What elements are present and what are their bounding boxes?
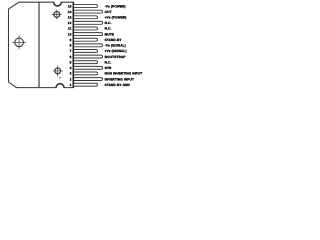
pin 4 lead, number and label "SVR"	[70, 66, 112, 70]
pin 6 lead, number and label "BOOTSTRAP"	[70, 55, 127, 59]
pin 13 lead, number and label "+Vs (POWER)"	[68, 15, 127, 19]
svg-text:14: 14	[68, 10, 72, 14]
notch center mark	[59, 77, 60, 78]
pin 2 lead, number and label "INVERTING INPUT"	[70, 77, 134, 81]
pin 11 lead, number and label "N.C."	[68, 27, 111, 31]
pin 14 lead, number and label "OUT"	[68, 10, 112, 14]
svg-text:7: 7	[70, 49, 72, 53]
right edge thick bar	[72, 2, 74, 88]
pin 5 lead, number and label "N.C."	[70, 60, 112, 64]
svg-text:6: 6	[70, 55, 72, 59]
svg-text:INVERTING INPUT: INVERTING INPUT	[105, 77, 134, 81]
pin 15 lead, number and label "-Vs (POWER)"	[68, 4, 126, 8]
svg-text:8: 8	[70, 44, 72, 48]
svg-text:+Vs (SIGNAL): +Vs (SIGNAL)	[105, 49, 127, 53]
svg-text:10: 10	[68, 32, 72, 36]
pin 1 lead, number and label "STAND-BY GND"	[70, 83, 131, 87]
pin 12 lead, number and label "N.C."	[68, 21, 112, 25]
top notch (thick arc)	[54, 2, 62, 6]
svg-text:3: 3	[70, 72, 72, 76]
svg-text:13: 13	[68, 15, 72, 19]
svg-text:STAND-BY: STAND-BY	[105, 38, 123, 42]
svg-text:15: 15	[68, 4, 72, 8]
pin 8 lead, number and label "-Vs (SIGNAL)"	[70, 44, 126, 48]
mounting hole (small, bottom)	[53, 65, 63, 76]
svg-text:9: 9	[70, 38, 72, 42]
pin 9 lead, number and label "STAND-BY"	[70, 38, 123, 42]
svg-text:12: 12	[68, 21, 72, 25]
svg-text:11: 11	[68, 27, 72, 31]
svg-text:N.C.: N.C.	[105, 27, 112, 31]
pin 3 lead, number and label "NON INVERTING INPUT"	[70, 72, 143, 76]
svg-text:-Vs (POWER): -Vs (POWER)	[105, 4, 126, 8]
svg-text:N.C.: N.C.	[105, 60, 112, 64]
svg-text:1: 1	[70, 83, 72, 87]
svg-text:N.C.: N.C.	[105, 21, 112, 25]
mounting hole (small, top)	[52, 10, 62, 20]
svg-text:+Vs (POWER): +Vs (POWER)	[105, 15, 127, 19]
package body outline U1 (Multiwatt15)	[9, 2, 74, 87]
mounting hole (large, left)	[12, 35, 26, 49]
svg-text:NON INVERTING INPUT: NON INVERTING INPUT	[105, 72, 143, 76]
svg-text:OUT: OUT	[105, 10, 112, 14]
bottom notch (thick arc)	[56, 84, 64, 88]
svg-text:4: 4	[70, 66, 72, 70]
internal tab edge line	[38, 2, 40, 87]
svg-text:5: 5	[70, 60, 72, 64]
svg-text:MUTE: MUTE	[105, 32, 114, 36]
pin 10 lead, number and label "MUTE"	[68, 32, 114, 36]
svg-text:STAND-BY GND: STAND-BY GND	[105, 83, 131, 87]
svg-text:2: 2	[70, 77, 72, 81]
svg-text:-Vs (SIGNAL): -Vs (SIGNAL)	[105, 44, 126, 48]
pin 7 lead, number and label "+Vs (SIGNAL)"	[70, 49, 127, 53]
svg-text:SVR: SVR	[105, 66, 112, 70]
svg-text:BOOTSTRAP: BOOTSTRAP	[105, 55, 127, 59]
